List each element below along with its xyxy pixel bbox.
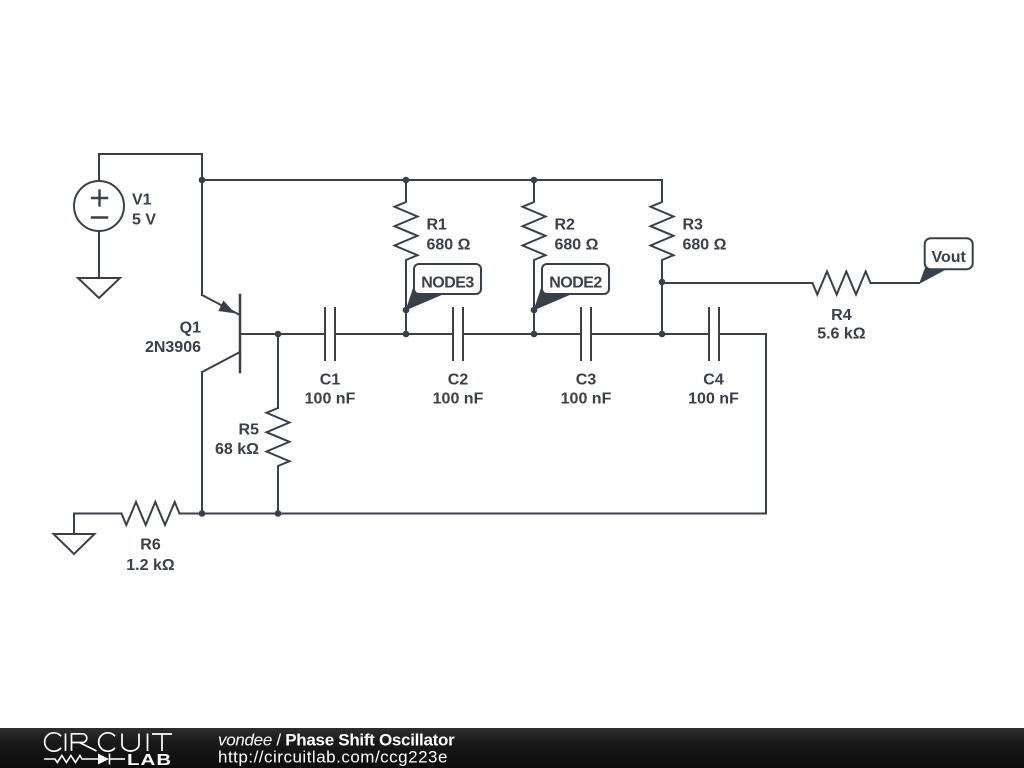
junction base wire at R5 <box>275 331 282 338</box>
junction bottom rail at Q1 collector <box>199 510 206 517</box>
wire C3 to C4 <box>591 333 709 335</box>
footer bar <box>0 728 1024 768</box>
svg-text:V1: V1 <box>132 191 152 208</box>
resistor R5 <box>267 334 290 514</box>
voltage source V1 <box>74 181 124 231</box>
svg-text:2N3906: 2N3906 <box>145 339 201 356</box>
svg-text:Vout: Vout <box>932 249 967 266</box>
resistor R1 <box>395 180 418 334</box>
ground (R6) <box>54 534 95 554</box>
wire R4 to Vout <box>871 282 920 284</box>
node flag Vout <box>919 238 973 284</box>
junction main wire at R1 <box>403 331 410 338</box>
wire C4 to right edge and down <box>719 334 766 514</box>
svg-text:C4: C4 <box>703 371 724 388</box>
svg-text:NODE2: NODE2 <box>549 275 602 292</box>
wire R6 to ground <box>74 514 122 535</box>
svg-text:680 Ω: 680 Ω <box>555 237 599 254</box>
capacitor C3 <box>581 308 591 360</box>
footer CircuitLab logo CIRCUIT <box>45 733 172 751</box>
svg-text:LAB: LAB <box>127 752 172 768</box>
svg-text:http://circuitlab.com/ccg223e: http://circuitlab.com/ccg223e <box>218 748 448 767</box>
junction rail at Q1 branch <box>199 177 206 184</box>
wire C2 to NODE2 <box>463 333 581 335</box>
junction bottom rail at R5 <box>275 510 282 517</box>
capacitor C2 <box>453 308 463 360</box>
svg-text:R5: R5 <box>239 422 260 439</box>
node flag NODE2 <box>534 264 610 311</box>
junction main wire at R2 <box>531 331 538 338</box>
svg-text:NODE3: NODE3 <box>421 275 474 292</box>
svg-text:100 nF: 100 nF <box>433 391 484 408</box>
svg-text:5 V: 5 V <box>132 211 156 228</box>
resistor R4 <box>813 272 871 295</box>
wire Q1 collector to bottom rail <box>201 372 203 514</box>
resistor R2 <box>523 180 546 334</box>
svg-text:68 kΩ: 68 kΩ <box>215 441 259 458</box>
ground (V1) <box>78 278 120 298</box>
transistor Q1 <box>202 295 240 372</box>
junction R3 bottom <box>659 279 666 286</box>
svg-text:100 nF: 100 nF <box>688 391 739 408</box>
resistor R3 <box>651 180 674 282</box>
resistor R6 <box>122 502 180 525</box>
wire R3 to main wire <box>661 282 663 334</box>
svg-text:680 Ω: 680 Ω <box>683 237 727 254</box>
junction rail at R1 <box>403 177 410 184</box>
svg-text:C1: C1 <box>320 371 341 388</box>
node flag NODE3 <box>406 264 482 311</box>
wire Q1 base <box>240 333 325 335</box>
capacitor C4 <box>709 308 719 360</box>
wire top rail <box>202 179 662 181</box>
svg-text:680 Ω: 680 Ω <box>427 237 471 254</box>
junction main wire at R3 branch <box>659 331 666 338</box>
wire C1 to NODE3 <box>335 333 453 335</box>
wire V1 top to rail corner <box>99 154 202 295</box>
svg-text:R2: R2 <box>555 217 576 234</box>
footer logo resistor-diode <box>44 754 125 765</box>
junction rail at R2 <box>531 177 538 184</box>
wire bottom rail <box>180 513 767 515</box>
svg-text:C2: C2 <box>448 371 469 388</box>
wire R3 to R4 <box>662 282 813 284</box>
svg-text:100 nF: 100 nF <box>561 391 612 408</box>
svg-text:100 nF: 100 nF <box>305 391 356 408</box>
svg-text:Q1: Q1 <box>180 320 201 337</box>
junction NODE2 tap <box>531 307 538 314</box>
svg-text:R4: R4 <box>831 307 852 324</box>
svg-text:1.2 kΩ: 1.2 kΩ <box>126 557 175 574</box>
svg-text:R3: R3 <box>683 217 704 234</box>
svg-text:5.6 kΩ: 5.6 kΩ <box>817 326 866 343</box>
junction NODE3 tap <box>403 307 410 314</box>
capacitor C1 <box>325 308 335 360</box>
svg-text:R6: R6 <box>140 537 161 554</box>
wire V1 bottom to ground <box>98 231 100 278</box>
svg-text:C3: C3 <box>576 371 597 388</box>
svg-text:R1: R1 <box>427 217 448 234</box>
